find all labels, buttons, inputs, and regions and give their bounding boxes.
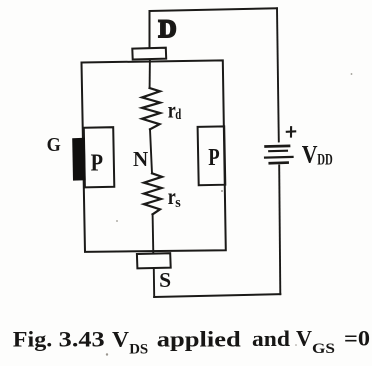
svg-text:V: V	[296, 326, 312, 351]
svg-text:D: D	[159, 16, 177, 43]
left P region	[84, 127, 115, 187]
svg-text:V: V	[112, 326, 129, 351]
svg-text:P: P	[91, 149, 103, 176]
svg-text:s: s	[175, 195, 181, 211]
resistor rd	[142, 88, 160, 129]
drain contact (terminal block)	[132, 48, 166, 60]
svg-text:d: d	[175, 107, 181, 123]
battery plate 4 (short)	[270, 161, 288, 164]
svg-text:N: N	[133, 147, 149, 171]
resistor rs	[144, 173, 162, 214]
svg-text:applied: applied	[157, 326, 241, 351]
svg-text:DS: DS	[129, 342, 148, 358]
caption: Fig. 3.43 VDS applied and VGS =0	[13, 326, 370, 358]
wire middle (rd to rs)	[150, 129, 152, 173]
battery plate 3 (long)	[265, 156, 292, 159]
svg-text:S: S	[159, 268, 171, 292]
plus sign	[287, 130, 295, 133]
right P region	[198, 126, 226, 185]
svg-text:DD: DD	[317, 151, 333, 168]
wire battery top lead	[277, 8, 279, 141]
wire top horizontal (to battery +)	[150, 8, 278, 11]
svg-text:G: G	[47, 134, 61, 156]
speckle noise	[106, 73, 353, 356]
wire battery bottom lead	[279, 165, 280, 294]
battery VDD plate 1 (long)	[266, 145, 289, 148]
svg-text:GS: GS	[312, 341, 335, 357]
gate contact (filled)	[72, 138, 85, 181]
battery plate 2 (short)	[269, 150, 287, 153]
wire drain vertical (D terminal to top corner)	[149, 11, 151, 48]
wire source down stub	[153, 268, 155, 297]
svg-text:P: P	[208, 144, 219, 171]
svg-text:=0: =0	[344, 326, 370, 351]
svg-text:Fig.: Fig.	[13, 326, 53, 351]
wire bottom horizontal (to battery -)	[154, 294, 280, 297]
wire rd top stub	[149, 60, 151, 89]
svg-text:V: V	[302, 141, 318, 168]
wire rs bottom stub	[152, 214, 155, 253]
svg-text:and: and	[252, 326, 290, 351]
main channel box	[82, 60, 226, 252]
source contact (terminal block)	[137, 253, 171, 268]
svg-text:3.43: 3.43	[59, 326, 105, 351]
